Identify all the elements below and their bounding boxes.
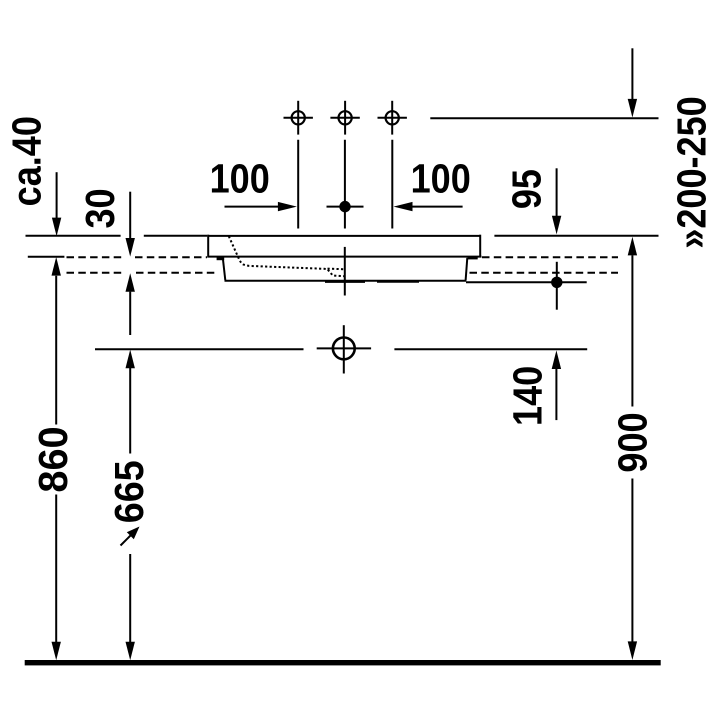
dim 665 down arrowhead: [126, 642, 135, 661]
dim 100 left arrowhead: [278, 202, 297, 211]
dim 100 right line: [412, 206, 463, 208]
dim 665 adjust arrow symbol: [121, 527, 140, 546]
supply dot level line: [466, 281, 587, 283]
svg-text:30: 30: [78, 188, 124, 228]
drain line left: [95, 348, 304, 350]
dim 100 left line: [225, 206, 279, 208]
dim 900 line upper: [631, 255, 633, 406]
dim 95 line: [556, 168, 558, 216]
dim 200-250 down arrowhead: [628, 99, 637, 118]
tap level line: [430, 117, 658, 119]
dim 100 right arrowhead: [394, 202, 413, 211]
dim 140 line: [555, 369, 557, 420]
dim 900 up arrowhead: [628, 237, 637, 256]
basin body left edge: [223, 258, 226, 280]
bowl hidden dotted drain ledge: [328, 268, 345, 271]
svg-text:100: 100: [411, 157, 471, 203]
centerline under middle hole: [344, 140, 346, 229]
up arrowhead counter bottom: [52, 257, 61, 276]
basin rim right edge: [479, 235, 481, 258]
dim 140 up arrowhead: [552, 350, 561, 369]
faucet hole circle right: [378, 101, 407, 135]
extension line under right hole: [391, 140, 393, 229]
dim 665 line lower: [129, 554, 131, 642]
basin body bottom: [225, 280, 467, 282]
floor line: [25, 660, 661, 665]
basin body right edge: [466, 258, 468, 281]
basin rim bottom: [208, 256, 482, 258]
dim 665 mid up arrowhead: [126, 350, 135, 369]
fixing dot middle: [327, 201, 364, 212]
basin drain bar: [325, 281, 365, 283]
svg-text:665: 665: [107, 460, 153, 523]
basin rim top: [208, 235, 481, 237]
svg-text:95: 95: [504, 169, 550, 209]
dim 860 down arrowhead: [52, 642, 61, 661]
basin rim joint left: [217, 257, 225, 260]
dim 860 line lower: [55, 495, 57, 643]
dim ca.40 down arrowhead: [52, 218, 61, 237]
dim 860 line upper: [55, 276, 57, 425]
svg-text:860: 860: [29, 426, 76, 492]
basin rim joint right: [468, 256, 478, 259]
faucet hole circle left: [284, 101, 313, 135]
dim 900 down arrowhead: [628, 641, 637, 660]
basin axis centerline: [344, 247, 346, 296]
basin rim left edge: [207, 235, 209, 258]
hidden dashed line upper: [67, 256, 619, 258]
hidden dashed line lower: [67, 272, 619, 274]
counter bottom solid line: [28, 256, 65, 258]
svg-text:100: 100: [210, 157, 270, 203]
svg-text:»200-250: »200-250: [670, 96, 716, 248]
faucet hole circle middle: [330, 101, 359, 135]
basin drain bar right: [377, 281, 419, 283]
supply dot: [551, 262, 562, 310]
counter top line: [26, 235, 659, 237]
svg-text:140: 140: [505, 366, 551, 426]
dim 95 down arrowhead: [552, 216, 561, 235]
bowl hidden dotted profile: [229, 236, 345, 276]
drain circle: [317, 325, 371, 373]
extension line under left hole: [297, 140, 299, 229]
dim 200-250 line: [631, 48, 633, 99]
dim 30 line: [129, 192, 131, 239]
dim 30 up arrowhead: [126, 273, 135, 292]
svg-text:900: 900: [611, 412, 657, 472]
dim 900 line lower: [631, 479, 633, 643]
dim 665 line upper: [129, 292, 131, 335]
svg-text:ca.40: ca.40: [4, 116, 50, 206]
dim ca.40 line: [56, 172, 58, 218]
dim 30 down arrowhead: [126, 238, 135, 257]
drain line right: [394, 348, 587, 350]
dim 665 line mid: [129, 368, 131, 454]
